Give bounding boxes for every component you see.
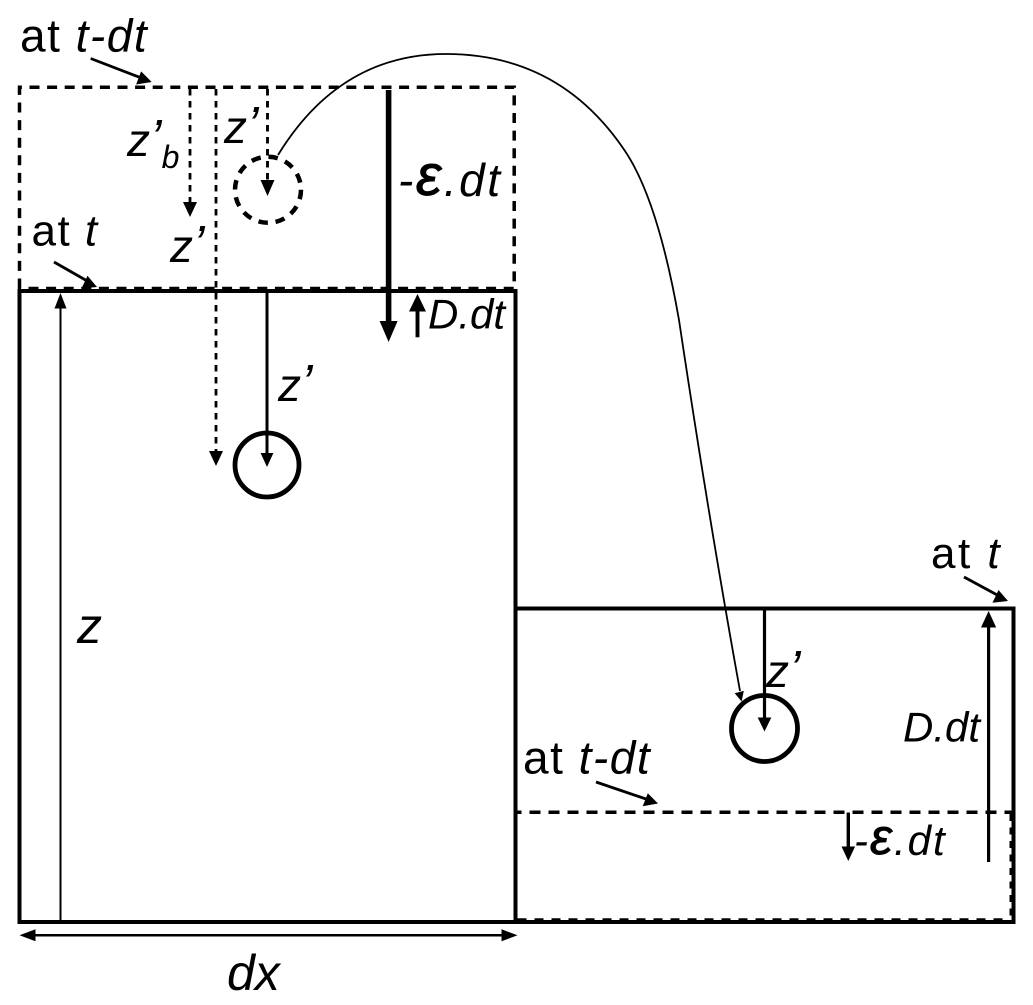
- dashed box: left column surface at t-dt: [20, 87, 515, 288]
- dashed circle: particle at t-dt: [235, 157, 301, 223]
- curved trajectory arrow from dashed circle to right box circle: [278, 54, 744, 702]
- arrow: D.dt up (left): [409, 294, 426, 337]
- solid circle: particle in right box: [732, 696, 798, 762]
- arrow: D.dt up (right): [981, 611, 996, 862]
- dashed arrow: z' into dashed circle: [261, 89, 275, 196]
- svg-text:z: z: [76, 598, 102, 654]
- svg-text:-ε.dt: -ε.dt: [854, 809, 947, 865]
- dashed segment: bottom edge of t-dt box (right column): [518, 918, 1011, 920]
- arrow: z' into solid circle (right box): [758, 610, 772, 732]
- svg-text:at t-dt: at t-dt: [20, 10, 149, 62]
- dashed segment: right edge of t-dt box (right column): [1009, 814, 1012, 920]
- svg-text:D.dt: D.dt: [428, 290, 507, 337]
- measure arrow: z depth: [55, 293, 67, 921]
- svg-text:z’: z’: [277, 355, 314, 413]
- solid circle: particle in left box: [235, 433, 299, 497]
- svg-text:z’: z’: [169, 216, 206, 274]
- svg-text:z’: z’: [223, 97, 260, 155]
- solid box: left column at t: [20, 291, 516, 922]
- thick arrow: -e.dt erosion (left): [380, 90, 398, 342]
- arrow: z' into solid circle (left box): [261, 292, 274, 467]
- leader arrow: at t-dt to dashed box: [91, 59, 152, 85]
- dashed arrow: long z' line through bed into left box: [209, 89, 223, 466]
- svg-text:z’: z’: [765, 641, 802, 699]
- dashed line: right column surface at t-dt: [518, 811, 1012, 815]
- svg-text:dx: dx: [227, 945, 282, 1001]
- dashed arrow: z'b (short): [183, 89, 197, 217]
- solid box: right column at t: [516, 609, 1014, 923]
- svg-text:at t: at t: [32, 207, 99, 256]
- svg-text:D.dt: D.dt: [903, 704, 982, 751]
- measure arrow: dx width: [20, 929, 518, 941]
- arrow: -e.dt down (right, small): [842, 813, 856, 862]
- leader arrow: at t to solid box top: [54, 262, 97, 289]
- svg-text:at t: at t: [931, 529, 1002, 578]
- leader arrow: at t-dt to dashed line (right): [596, 782, 658, 806]
- svg-text:at t-dt: at t-dt: [523, 732, 652, 784]
- leader arrow: at t to right box top: [964, 577, 1008, 603]
